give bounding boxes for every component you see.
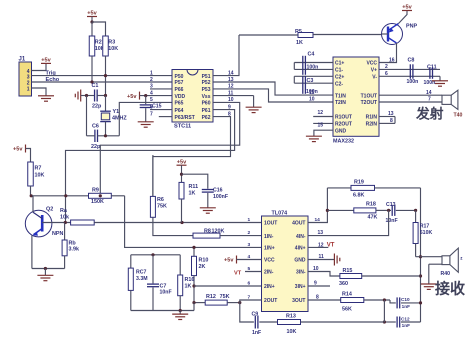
svg-text:100n: 100n	[407, 79, 419, 85]
connector J1	[19, 57, 32, 97]
wire R14 to C10 row	[364, 300, 396, 303]
svg-text:T2IN: T2IN	[335, 100, 346, 106]
wire C1- row	[294, 68, 333, 70]
pin2 label	[385, 64, 388, 70]
capacitor C12	[397, 316, 410, 328]
wire +5v branch to C16	[182, 174, 208, 189]
wire R1IN stub	[379, 111, 395, 117]
svg-text:P63/RST: P63/RST	[175, 115, 195, 121]
junction R11 bottom	[180, 221, 183, 224]
capacitor C3	[303, 76, 318, 95]
capacitor C1	[92, 83, 99, 102]
svg-text:5: 5	[150, 97, 153, 103]
svg-text:75K: 75K	[157, 203, 167, 209]
resistor R5	[239, 29, 382, 46]
ground R40	[421, 284, 437, 289]
wire speaker top feed	[416, 256, 442, 258]
wire ground stem R40	[428, 264, 430, 284]
wire C4 stub	[293, 63, 295, 70]
resistor R12	[205, 294, 229, 305]
svg-text:P66: P66	[175, 87, 184, 93]
svg-text:10nF: 10nF	[160, 290, 172, 296]
power +5v R2/R3	[87, 11, 98, 22]
svg-text:T2OUT: T2OUT	[361, 100, 377, 106]
resistor R19	[351, 179, 375, 198]
wire U2 pin12 to MAX232 T2IN	[213, 89, 333, 102]
junction +5v/R2	[90, 20, 93, 23]
svg-text:3.9k: 3.9k	[69, 247, 80, 253]
svg-text:C6: C6	[92, 124, 99, 130]
U2 right pin numbers	[228, 70, 234, 117]
svg-text:GND: GND	[335, 128, 347, 134]
junction R13 column top	[383, 298, 386, 301]
svg-text:VCC: VCC	[264, 258, 275, 264]
svg-text:C12: C12	[401, 316, 410, 321]
svg-text:C3: C3	[307, 78, 314, 84]
wire PNP emitter to +5v	[399, 11, 408, 24]
svg-text:T40: T40	[454, 113, 463, 119]
svg-text:P53: P53	[202, 87, 211, 93]
capacitor C7	[147, 255, 172, 311]
MCU U2 STC11	[172, 70, 213, 130]
resistor Ra	[60, 208, 94, 225]
ground Vss	[246, 107, 262, 112]
svg-text:4IN-: 4IN-	[296, 234, 306, 240]
svg-text:75K: 75K	[220, 294, 230, 300]
svg-text:12: 12	[318, 110, 324, 116]
junction C7 top	[151, 253, 154, 256]
svg-text:P50: P50	[175, 74, 184, 80]
svg-text:2IN-: 2IN-	[264, 270, 274, 276]
transistor Q1 PNP	[382, 24, 418, 45]
junction base/Rb	[64, 221, 67, 224]
junction C10 corner	[419, 301, 422, 304]
svg-text:7: 7	[428, 97, 431, 103]
svg-text:11: 11	[319, 254, 325, 260]
resistor R10	[192, 247, 209, 275]
value C6 22p	[91, 144, 101, 150]
svg-text:T1OUT: T1OUT	[361, 93, 377, 99]
junction R3/Trig	[104, 74, 107, 77]
svg-text:2: 2	[385, 64, 388, 70]
svg-text:1K: 1K	[296, 40, 303, 46]
node Echo label	[46, 77, 60, 83]
RS232 driver U3 MAX232	[333, 57, 379, 145]
capacitor C6	[92, 124, 99, 143]
svg-text:4: 4	[150, 90, 153, 96]
wire C2- row	[294, 82, 333, 84]
resistor R13	[278, 314, 301, 335]
sideways ground U4 GND	[308, 254, 340, 266]
resistor R3	[103, 36, 119, 56]
svg-text:+5v: +5v	[177, 159, 187, 165]
wire R19 left lead	[327, 187, 351, 189]
wire speaker bottom feed	[429, 263, 442, 265]
junction VDD/C15	[144, 94, 147, 97]
svg-text:C1-: C1-	[335, 68, 343, 74]
svg-text:1nF: 1nF	[402, 304, 410, 309]
wire C9 to R13	[259, 321, 277, 323]
right column R19 down to C12	[419, 188, 422, 322]
svg-text:9: 9	[314, 281, 317, 287]
wire 3IN+ stub	[308, 281, 330, 287]
svg-text:11: 11	[309, 90, 315, 96]
svg-text:V+: V+	[371, 68, 377, 74]
svg-text:6.8K: 6.8K	[353, 193, 364, 199]
svg-text:R19: R19	[354, 179, 364, 185]
svg-text:R2OUT: R2OUT	[335, 122, 352, 128]
svg-text:R6: R6	[157, 197, 164, 203]
wire R19 to right column	[375, 187, 421, 189]
svg-text:R14: R14	[342, 291, 352, 297]
svg-text:15: 15	[318, 123, 324, 129]
wire R10 to R12	[193, 276, 195, 303]
svg-text:10k: 10k	[60, 215, 69, 221]
svg-text:3IN-: 3IN-	[296, 270, 306, 276]
svg-text:MAX232: MAX232	[333, 139, 354, 145]
wire C10 right lead	[401, 302, 421, 304]
wire U2 pin9 route	[66, 110, 235, 223]
wire R12 left lead	[192, 301, 205, 304]
svg-text:R3: R3	[108, 40, 115, 46]
svg-text:R12: R12	[206, 294, 216, 300]
svg-text:8: 8	[316, 295, 319, 301]
svg-text:TL074: TL074	[272, 211, 288, 217]
svg-text:VDD: VDD	[175, 94, 186, 100]
svg-text:C15: C15	[152, 104, 162, 110]
wire +5v to R2	[91, 22, 93, 36]
U4 pin numbers	[248, 217, 321, 301]
ground C16	[200, 208, 216, 213]
capacitor C11	[424, 64, 437, 86]
svg-text:C9: C9	[252, 312, 259, 318]
svg-text:T1IN: T1IN	[335, 93, 346, 99]
wire Q2 emitter	[31, 236, 33, 269]
svg-text:56K: 56K	[342, 307, 352, 313]
power +5v R7	[13, 145, 31, 163]
svg-text:4IN+: 4IN+	[295, 246, 306, 252]
wire crystal loop bottom right	[98, 135, 120, 137]
svg-text:GND: GND	[294, 258, 306, 264]
wire R13 loop column	[383, 300, 385, 322]
svg-text:1OUT: 1OUT	[264, 221, 277, 227]
resistor R16	[178, 255, 195, 311]
svg-text:10: 10	[313, 266, 319, 272]
wire base row to 1OUT row	[94, 222, 261, 224]
wire ground stem	[44, 269, 46, 276]
wire bottom rail stem	[179, 311, 181, 314]
svg-text:Q2: Q2	[46, 207, 53, 213]
speaker T40	[442, 90, 463, 118]
pin11 label T1IN	[309, 90, 315, 96]
svg-text:PNP: PNP	[406, 24, 417, 30]
power +5v U4 VCC	[224, 256, 262, 264]
svg-text:10K: 10K	[108, 46, 118, 52]
wire R18 to C13 junction	[376, 209, 391, 211]
svg-text:1: 1	[150, 70, 153, 76]
wire U2 pin10 route	[100, 102, 239, 195]
wire PNP collector to VCC pin16	[379, 43, 397, 63]
junction rail/P60	[64, 194, 102, 197]
junction C6 bottom	[104, 134, 107, 137]
wire C2+ row	[294, 75, 333, 77]
svg-text:+5v: +5v	[224, 258, 234, 264]
capacitor C15	[140, 96, 162, 122]
resistor Rb	[62, 223, 79, 269]
svg-text:10K: 10K	[35, 173, 45, 179]
wire Q2 collector	[32, 196, 33, 212]
wire crystal top node left	[81, 95, 95, 97]
svg-text:R2IN: R2IN	[366, 122, 378, 128]
power +5v R11	[177, 159, 188, 182]
capacitor C16	[202, 187, 228, 207]
junction R13 column bottom	[383, 320, 386, 323]
svg-text:P51: P51	[202, 74, 211, 80]
svg-text:C2+: C2+	[335, 75, 344, 81]
svg-text:P62: P62	[202, 115, 211, 121]
wire R18 left lead	[327, 209, 353, 211]
emitter rail	[32, 268, 65, 270]
svg-text:STC11: STC11	[174, 123, 191, 129]
wire J1 pin1 to ground	[32, 88, 47, 96]
junction crystal top	[104, 94, 107, 97]
wire T1OUT to T40	[379, 90, 442, 96]
label receive	[435, 280, 465, 298]
svg-text:1K: 1K	[189, 191, 196, 197]
svg-text:P52: P52	[202, 80, 211, 86]
wire C11 to ground	[439, 76, 441, 80]
junction R11/C16 branch	[180, 173, 183, 176]
resistor R6	[150, 155, 167, 217]
svg-text:C2-: C2-	[335, 81, 343, 87]
wire R7 to collector rail	[30, 186, 33, 197]
value C1 22p	[92, 104, 102, 110]
wire 3OUT row	[308, 295, 341, 301]
svg-text:R15: R15	[343, 268, 353, 274]
wire C12 right lead	[401, 321, 421, 323]
svg-text:3.3M: 3.3M	[136, 276, 148, 282]
svg-text:4OUT: 4OUT	[292, 221, 305, 227]
svg-text:1: 1	[27, 87, 30, 93]
resistor R9	[89, 187, 112, 205]
resistor R18	[354, 201, 378, 220]
wire rail right of R9	[111, 195, 124, 197]
svg-text:16: 16	[389, 57, 395, 63]
svg-text:C4: C4	[308, 52, 315, 58]
wire U2 pin13 to MAX232 T1IN	[213, 82, 333, 95]
node Trig label	[46, 71, 57, 77]
svg-text:3: 3	[248, 242, 251, 248]
svg-text:+5v: +5v	[41, 58, 51, 64]
label 12 VT	[308, 242, 335, 248]
wire R1OUT stub	[313, 110, 333, 116]
svg-text:150K: 150K	[91, 199, 104, 205]
svg-text:1IN-: 1IN-	[264, 234, 274, 240]
svg-text:+5v: +5v	[402, 5, 412, 11]
svg-text:R1OUT: R1OUT	[335, 115, 352, 121]
resistor R14	[341, 291, 364, 312]
wire C3 stub	[293, 76, 295, 83]
svg-text:C1: C1	[92, 83, 99, 89]
ground under C15	[138, 122, 154, 127]
wire 3IN- to R15	[308, 266, 340, 276]
svg-text:100nF: 100nF	[213, 194, 228, 200]
svg-text:1nF: 1nF	[402, 323, 410, 328]
resistor RC7	[128, 255, 147, 311]
svg-text:13: 13	[318, 230, 324, 236]
svg-text:C8: C8	[408, 58, 415, 64]
svg-text:P57: P57	[175, 80, 184, 86]
wire R9 corner down to pin3 row	[125, 196, 262, 248]
resistor R15	[339, 268, 362, 287]
resistor R8	[193, 228, 262, 238]
wire R2IN stub	[379, 117, 395, 125]
svg-text:R10: R10	[199, 258, 209, 264]
svg-text:RC7: RC7	[136, 270, 146, 276]
amp bottom rail	[131, 310, 194, 312]
svg-text:R2: R2	[95, 40, 102, 46]
wire R6 to R8 row	[153, 217, 193, 235]
wire R2 bottom to Echo row	[91, 56, 93, 82]
svg-text:10: 10	[309, 97, 315, 103]
ground MAX232	[306, 136, 322, 141]
svg-text:R11: R11	[189, 184, 199, 190]
svg-text:1nF: 1nF	[252, 330, 261, 336]
pin16 label	[389, 57, 395, 63]
svg-text:R5: R5	[295, 29, 302, 35]
svg-text:接收: 接收	[435, 280, 465, 298]
svg-text:6: 6	[385, 71, 388, 77]
wire C13 to R17 column	[396, 209, 416, 211]
pin10 label T2IN	[309, 97, 315, 103]
svg-text:3OUT: 3OUT	[292, 298, 305, 304]
wire U2 pin8 route	[153, 117, 231, 197]
wire 2IN+ row	[194, 285, 262, 287]
svg-text:10nF: 10nF	[386, 218, 398, 224]
junction C13/R17	[414, 209, 417, 212]
capacitor C8	[407, 58, 419, 85]
svg-text:发射: 发射	[415, 105, 444, 121]
junction 2IN+/R10R12	[192, 284, 195, 287]
wire left loop vertical	[86, 96, 88, 136]
wire R13 to column	[301, 321, 385, 323]
svg-text:8: 8	[390, 118, 393, 124]
svg-text:360: 360	[339, 281, 348, 287]
svg-text:NPN: NPN	[52, 231, 63, 237]
svg-text:R8: R8	[204, 228, 211, 234]
wire Trig row (J1 pin3 to U2 pin1)	[32, 75, 173, 77]
junction R10 top	[192, 246, 195, 249]
pin6 label	[385, 71, 388, 77]
wire rail to R12 connection	[194, 301, 241, 311]
wire crystal loop bottom left	[87, 135, 95, 137]
svg-text:Vss: Vss	[202, 94, 211, 100]
svg-text:C13: C13	[386, 202, 396, 208]
svg-text:R1IN: R1IN	[366, 115, 378, 121]
collector rail	[32, 195, 89, 197]
wire R15 to column	[362, 275, 421, 277]
wire U2 pin14 to R5	[213, 35, 239, 76]
svg-text:P60: P60	[202, 101, 211, 107]
svg-text:10K: 10K	[287, 329, 297, 335]
crystal Y1	[100, 96, 127, 136]
wire 4IN- row to C13 junction	[308, 210, 389, 236]
capacitor C4	[303, 52, 319, 75]
ground C11	[432, 81, 448, 86]
wire J1 pin4 to +5v	[32, 64, 47, 71]
transistor Q2 NPN	[25, 207, 63, 238]
wire C1+ row	[294, 62, 333, 64]
wire crystal top node right	[97, 95, 105, 97]
wire crystal loop right (to U2 pin5)	[119, 102, 172, 135]
svg-text:Y1: Y1	[113, 109, 120, 115]
svg-text:R16: R16	[185, 277, 195, 283]
ground sideways near C1	[75, 90, 80, 102]
wire MAX232 GND to ground	[314, 123, 333, 136]
junction left loop	[85, 94, 88, 97]
svg-text:C11: C11	[427, 64, 437, 70]
wire R3 bottom to crystal node	[105, 56, 107, 96]
junction bottom rail ground	[179, 309, 182, 312]
svg-text:+5v: +5v	[13, 147, 23, 153]
resistor R11	[179, 182, 198, 222]
svg-text:22p: 22p	[91, 144, 101, 150]
label VT at 2IN-	[234, 271, 262, 277]
wire Echo row (J1 pin2 to U2 pin2)	[32, 81, 173, 83]
wire U2 pin11 Vss to ground	[213, 96, 254, 107]
svg-text:2OUT: 2OUT	[264, 298, 277, 304]
svg-text:3IN+: 3IN+	[295, 284, 306, 290]
wire V+ row to C8/C11	[379, 68, 440, 70]
svg-text:P64: P64	[175, 108, 184, 114]
wire Q2 base row	[42, 222, 70, 224]
capacitor C10	[397, 297, 410, 309]
resistor R2	[89, 36, 105, 56]
svg-text:2IN+: 2IN+	[264, 284, 275, 290]
svg-text:R13: R13	[286, 314, 296, 320]
svg-text:2K: 2K	[199, 264, 206, 270]
svg-text:1K: 1K	[185, 284, 192, 290]
svg-text:R18: R18	[366, 201, 376, 207]
svg-text:100n: 100n	[307, 64, 319, 70]
svg-text:13: 13	[388, 111, 394, 117]
ground amp bottom	[172, 314, 188, 319]
svg-text:P65: P65	[175, 101, 184, 107]
svg-text:14: 14	[426, 90, 432, 96]
svg-text:P61: P61	[202, 108, 211, 114]
wire 4OUT to feedback node	[308, 188, 327, 223]
power +5v VDD	[127, 92, 172, 100]
ground J1	[38, 96, 54, 101]
wire T2OUT to T40	[379, 97, 442, 103]
svg-text:1: 1	[248, 217, 251, 223]
svg-text:6: 6	[248, 281, 251, 287]
resistor R17	[413, 210, 432, 256]
label transmit	[415, 105, 444, 121]
svg-text:V-: V-	[372, 75, 377, 81]
wire 2OUT loop	[240, 300, 262, 322]
svg-text:+5v: +5v	[127, 94, 137, 100]
svg-text:510K: 510K	[420, 230, 433, 236]
svg-text:VT: VT	[234, 271, 242, 277]
junction R2/Echo	[90, 80, 93, 83]
junction C13/R18/4IN-	[387, 209, 390, 212]
wire C12 left lead	[384, 321, 395, 323]
wire RC7 top rail	[131, 254, 180, 256]
svg-text:120K: 120K	[212, 228, 225, 234]
svg-text:47K: 47K	[368, 214, 378, 220]
wire +5v to R3	[92, 22, 106, 36]
